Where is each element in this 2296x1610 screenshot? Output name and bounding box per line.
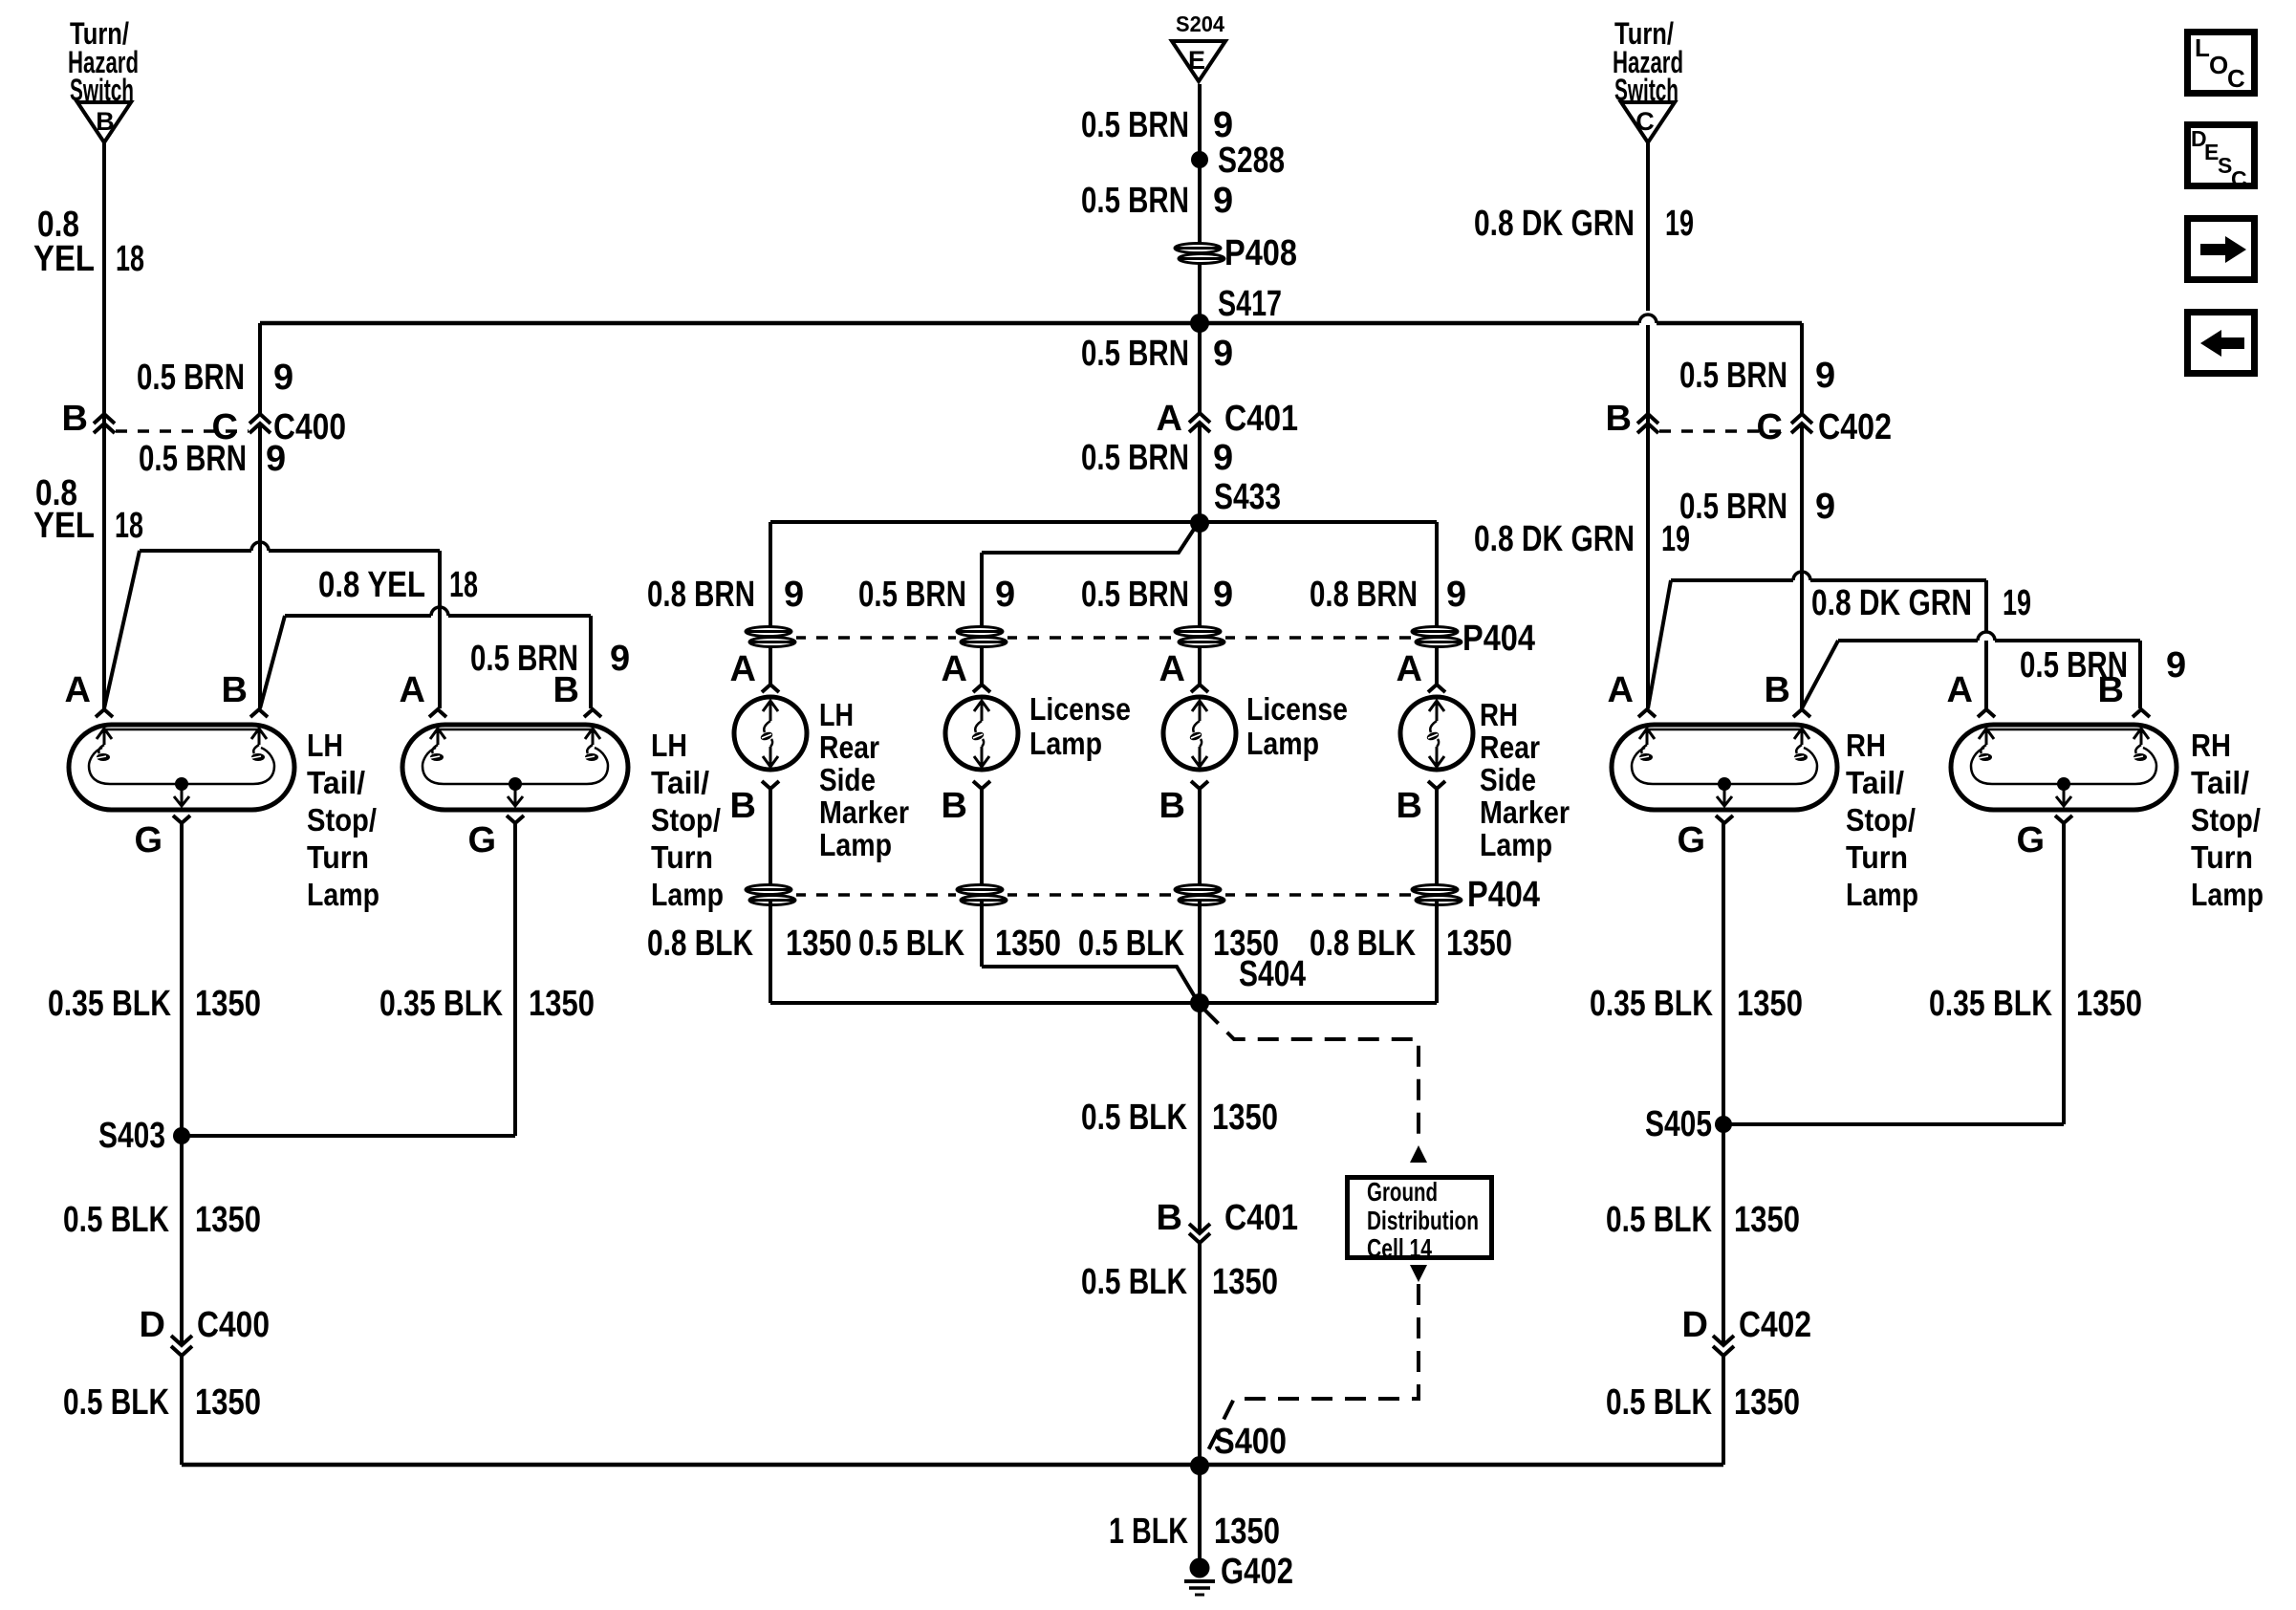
svg-text:0.8 BRN: 0.8 BRN (647, 575, 755, 615)
svg-text:9: 9 (1213, 181, 1233, 221)
svg-text:18: 18 (116, 239, 144, 279)
svg-text:B: B (1606, 399, 1632, 439)
svg-text:9: 9 (1446, 575, 1466, 615)
svg-text:9: 9 (273, 358, 293, 398)
splice S403 (173, 1127, 190, 1144)
svg-text:0.5 BRN: 0.5 BRN (1679, 356, 1787, 396)
lamp RH rear side marker bulb (1428, 685, 1445, 692)
svg-text:Lamp: Lamp (1029, 726, 1102, 761)
splice S288 (1191, 151, 1208, 168)
svg-text:S405: S405 (1645, 1104, 1712, 1144)
wire drop license1 A (980, 553, 984, 685)
wire YEL diagonal to LH lamp1 A (104, 551, 140, 708)
svg-text:Distribution: Distribution (1367, 1206, 1479, 1235)
svg-text:RH: RH (1480, 697, 1518, 732)
wire 0.5 BLK S403 to C400 D (180, 1136, 184, 1345)
svg-text:Turn: Turn (2191, 839, 2253, 875)
svg-text:0.5 BRN: 0.5 BRN (1081, 334, 1189, 374)
wire 0.35 BLK lamp1 G to S403 (180, 823, 184, 1136)
connector P404 grommet top license2 (1174, 627, 1225, 647)
svg-text:0.5 BLK: 0.5 BLK (858, 924, 964, 964)
svg-text:0.5 BRN: 0.5 BRN (1081, 575, 1189, 615)
svg-text:9: 9 (2166, 645, 2186, 685)
svg-text:1350: 1350 (1446, 924, 1512, 964)
wire 0.8 DK GRN branch line (1671, 578, 1793, 582)
svg-text:B: B (942, 786, 967, 826)
connector triangle C (Turn/Hazard Switch) (1621, 102, 1675, 142)
svg-text:License: License (1029, 691, 1131, 727)
svg-text:B: B (730, 786, 756, 826)
svg-text:1350: 1350 (786, 924, 852, 964)
wire BRN branch down to LH lamp2 B (589, 616, 593, 708)
svg-text:LH: LH (651, 728, 687, 763)
wire hop BRN branch over YEL drop (431, 607, 448, 616)
wire LH marker B to black bus (769, 900, 772, 1003)
wire RH marker B down (1435, 789, 1439, 890)
legend box LOC (2188, 33, 2255, 94)
wire P408 to S417 (1198, 264, 1202, 323)
svg-text:License: License (1246, 691, 1348, 727)
wire 0.35 BLK RH lamp2 G down (2062, 823, 2066, 1124)
svg-text:Lamp: Lamp (651, 877, 724, 912)
svg-text:9: 9 (1213, 575, 1233, 615)
svg-text:E: E (1188, 46, 1205, 75)
connector C400 pin C chevrons (249, 414, 271, 424)
wire drop RH marker A (1435, 522, 1439, 685)
svg-text:Rear: Rear (819, 729, 879, 765)
svg-text:Tail/: Tail/ (2191, 765, 2249, 800)
svg-text:B: B (1159, 786, 1185, 826)
wire S405 horizontal (1723, 1122, 2064, 1126)
connector C402 pin C chevrons (1791, 414, 1812, 424)
svg-text:9: 9 (1213, 334, 1233, 374)
connector triangle E (S204) (1172, 41, 1225, 81)
svg-text:P408: P408 (1224, 233, 1297, 273)
splice S400 (1190, 1456, 1209, 1475)
svg-text:B: B (1157, 1198, 1182, 1238)
svg-text:A: A (1608, 670, 1634, 710)
lamp license lamp 2 bulb (1191, 685, 1208, 692)
svg-text:B: B (96, 107, 115, 136)
svg-text:Turn: Turn (651, 839, 713, 875)
svg-text:B: B (1397, 786, 1422, 826)
svg-text:0.5 BLK: 0.5 BLK (63, 1382, 169, 1423)
svg-text:9: 9 (1213, 438, 1233, 478)
svg-text:0.5 BRN: 0.5 BRN (139, 439, 247, 479)
wire 0.5 BRN 9 from S417 to C400 (258, 323, 262, 414)
svg-text:G402: G402 (1221, 1552, 1293, 1592)
svg-text:S204: S204 (1176, 11, 1224, 36)
svg-text:A: A (1397, 649, 1422, 689)
svg-text:9: 9 (610, 639, 630, 679)
connector C402 pin B chevrons (1637, 414, 1658, 424)
wire YEL drop continue to lamp2 A (438, 616, 442, 708)
svg-text:Side: Side (819, 762, 876, 797)
dashed path S404 to Ground Distribution (1203, 1009, 1419, 1143)
wire 0.5 BRN branch line (right) (1838, 639, 1978, 642)
connector C400 pin D chevrons (171, 1336, 192, 1345)
svg-text:S433: S433 (1214, 477, 1281, 517)
svg-text:0.5 BLK: 0.5 BLK (1081, 1098, 1187, 1138)
svg-text:C400: C400 (197, 1305, 270, 1345)
connector P404 grommet bottom RH marker (1411, 885, 1462, 905)
svg-text:G: G (2016, 820, 2045, 860)
svg-text:18: 18 (449, 565, 478, 605)
svg-text:G: G (467, 820, 496, 860)
legend box next-page arrow (2188, 219, 2255, 280)
svg-text:9: 9 (1815, 487, 1835, 527)
legend icon right arrow (2200, 236, 2246, 263)
connector C402 pin D chevrons (1713, 1336, 1734, 1345)
svg-text:C: C (2231, 166, 2247, 191)
wire drop license2 A (1198, 523, 1202, 685)
svg-text:0.5 BRN: 0.5 BRN (858, 575, 966, 615)
svg-text:A: A (1159, 649, 1185, 689)
svg-text:LH: LH (819, 697, 854, 732)
wire 0.5 BLK S405 to C402 D (1722, 1124, 1725, 1345)
arrow down from Ground Distribution (1410, 1265, 1427, 1282)
svg-text:Marker: Marker (819, 794, 909, 830)
svg-text:B: B (62, 399, 88, 439)
ground G402 symbol (1190, 1558, 1210, 1578)
svg-text:19: 19 (2003, 583, 2031, 623)
svg-text:1350: 1350 (1212, 1262, 1278, 1302)
svg-text:A: A (942, 649, 967, 689)
wire hop DK GRN branch over C402 wire (1793, 572, 1810, 580)
wire 0.5 BLK C401 to S400 (1198, 1243, 1202, 1465)
wire 0.5 BRN 9 from C402 to lamp (1800, 424, 1804, 708)
svg-text:Lamp: Lamp (1246, 726, 1319, 761)
wire 0.5 BRN 9 from S417 to C402 (1800, 323, 1804, 414)
svg-text:Cell 14: Cell 14 (1367, 1233, 1432, 1263)
splice S433 (1190, 513, 1209, 533)
svg-text:B: B (222, 670, 248, 710)
svg-text:0.35 BLK: 0.35 BLK (48, 984, 171, 1024)
svg-text:Tail/: Tail/ (651, 765, 709, 800)
wire S433 branch to license lamp 1 (982, 525, 1197, 553)
connector P404 dashed line (top) (794, 636, 958, 640)
svg-text:YEL: YEL (33, 239, 95, 279)
svg-text:Ground: Ground (1367, 1177, 1438, 1207)
svg-text:LH: LH (307, 728, 343, 763)
wire 0.5 BLK C400 to S400 (180, 1356, 184, 1465)
svg-text:0.5 BRN: 0.5 BRN (1081, 105, 1189, 145)
wire 0.35 BLK lamp2 G down (513, 823, 517, 1136)
svg-text:1350: 1350 (195, 1200, 261, 1240)
wire 0.8 DK GRN from switch C (above S417) (1646, 142, 1650, 311)
wire license2 B to S404 (1198, 900, 1202, 1003)
svg-text:C: C (1635, 107, 1655, 136)
svg-text:0.8 BLK: 0.8 BLK (647, 924, 753, 964)
wire GRN drop continue to RH lamp2 A (1984, 641, 1988, 708)
svg-text:9: 9 (266, 439, 286, 479)
splice S417 (1190, 314, 1209, 333)
arrow up to Ground Distribution (1410, 1145, 1427, 1163)
svg-text:1350: 1350 (1734, 1200, 1800, 1240)
connector C400 dashed line (116, 429, 249, 433)
svg-text:0.8 DK GRN: 0.8 DK GRN (1811, 583, 1972, 623)
box Ground Distribution Cell 14 (1348, 1178, 1492, 1258)
svg-text:0.8 BRN: 0.8 BRN (1310, 575, 1418, 615)
connector P408 grommet (1174, 244, 1225, 264)
svg-text:Turn: Turn (307, 839, 369, 875)
connector C400 pin B chevrons (94, 414, 115, 424)
svg-text:A: A (1157, 399, 1182, 439)
wire LH marker B down (769, 789, 772, 890)
svg-text:S404: S404 (1239, 954, 1306, 994)
lamp LH rear side marker bulb (762, 685, 779, 692)
svg-text:P404: P404 (1467, 875, 1540, 915)
svg-text:B: B (2098, 670, 2124, 710)
svg-text:Stop/: Stop/ (1846, 802, 1916, 838)
wire hop at S417 over Turn/Hazard C wire (1639, 315, 1657, 323)
svg-text:Lamp: Lamp (1846, 877, 1918, 912)
svg-text:9: 9 (784, 575, 804, 615)
svg-text:0.8 YEL: 0.8 YEL (318, 565, 425, 605)
svg-text:Side: Side (1480, 762, 1536, 797)
wire DK GRN diagonal to RH lamp1 A (1648, 580, 1671, 708)
svg-text:19: 19 (1665, 204, 1694, 244)
svg-text:0.5 BLK: 0.5 BLK (1606, 1382, 1712, 1423)
legend box prev-page arrow (2188, 313, 2255, 374)
svg-text:Lamp: Lamp (819, 827, 892, 862)
svg-text:18: 18 (115, 506, 143, 546)
wire 0.5 BRN 9 S288 to P408 (1198, 160, 1202, 244)
svg-text:Rear: Rear (1480, 729, 1540, 765)
svg-text:0.5 BLK: 0.5 BLK (1606, 1200, 1712, 1240)
splice S405 (1715, 1116, 1732, 1133)
svg-text:L: L (2195, 33, 2210, 62)
svg-text:P404: P404 (1462, 619, 1535, 659)
svg-text:Turn: Turn (1846, 839, 1908, 875)
wire 0.5 BRN 9 S204 to S288 (1198, 84, 1202, 160)
svg-text:O: O (2209, 51, 2228, 79)
svg-text:Tail/: Tail/ (307, 765, 365, 800)
svg-text:Lamp: Lamp (307, 877, 379, 912)
svg-text:Lamp: Lamp (2191, 877, 2264, 912)
svg-text:C402: C402 (1739, 1305, 1811, 1345)
wire BRN diagonal to RH lamp1 B (1802, 641, 1838, 708)
wire S403 horizontal (182, 1134, 515, 1138)
svg-text:C401: C401 (1224, 399, 1298, 439)
legend icon left arrow (2200, 330, 2244, 357)
wire black bus bottom (770, 1001, 1437, 1005)
wire S417 horizontal bus (260, 321, 1639, 326)
wire 0.5 BLK S404 to C401 (1198, 1003, 1202, 1233)
svg-text:0.5 BRN: 0.5 BRN (1081, 438, 1189, 478)
wire 1 BLK S400 to G402 (1198, 1466, 1202, 1560)
svg-text:B: B (1765, 670, 1790, 710)
svg-text:Stop/: Stop/ (307, 802, 377, 838)
wire 0.35 BLK RH lamp1 G to S405 (1722, 823, 1725, 1124)
legend box DESC (2188, 125, 2255, 186)
svg-text:Marker: Marker (1480, 794, 1570, 830)
svg-text:1350: 1350 (195, 1382, 261, 1423)
connector P404 grommet bottom LH marker (745, 885, 796, 905)
svg-text:S288: S288 (1218, 141, 1285, 181)
dashed path Ground Distribution to S400 (1203, 1284, 1419, 1460)
svg-text:A: A (400, 670, 425, 710)
svg-text:C402: C402 (1818, 407, 1892, 447)
connector C401 pin A chevrons (1189, 413, 1210, 423)
connector P404 dashed line (bottom) (794, 893, 958, 897)
wire YEL branch down to LH lamp2 A (438, 551, 442, 616)
svg-text:G: G (1677, 820, 1705, 860)
connector C401 pin B chevrons (1189, 1224, 1210, 1233)
svg-text:0.5 BRN: 0.5 BRN (137, 358, 245, 398)
svg-text:D: D (1682, 1305, 1708, 1345)
svg-text:C401: C401 (1224, 1198, 1298, 1238)
connector triangle B (Turn/Hazard Switch) (77, 102, 131, 142)
lamp RH tail/stop/turn 2 (1978, 709, 1995, 717)
svg-text:C: C (1757, 407, 1783, 447)
wire license1 B down (980, 789, 984, 890)
wire drop LH marker A (769, 522, 772, 685)
svg-text:0.8 BLK: 0.8 BLK (1310, 924, 1416, 964)
lamp RH tail/stop/turn 1 (1638, 709, 1656, 717)
lamp license lamp 1 bulb (973, 685, 990, 692)
connector C402 dashed line (1659, 429, 1790, 433)
wire hop over S417 (Turn/Hazard C wire) (1646, 325, 1650, 708)
svg-text:Stop/: Stop/ (2191, 802, 2261, 838)
svg-text:0.35 BLK: 0.35 BLK (1590, 984, 1713, 1024)
svg-text:1350: 1350 (2076, 984, 2142, 1024)
wire 0.5 BRN branch line (285, 614, 431, 618)
svg-text:0.5 BLK: 0.5 BLK (63, 1200, 169, 1240)
connector P404 grommet bottom license1 (956, 885, 1007, 905)
svg-text:1350: 1350 (1212, 1098, 1278, 1138)
wire 0.8 YEL branch line (140, 549, 251, 553)
svg-text:9: 9 (995, 575, 1015, 615)
wire 0.5 BRN 9 S417 to C401 (1198, 323, 1202, 413)
wire license2 B down (1198, 789, 1202, 890)
wire S400 ground bus (182, 1463, 1723, 1468)
svg-text:9: 9 (1213, 105, 1233, 145)
svg-text:YEL: YEL (33, 506, 95, 546)
wire DK GRN branch down segment (1984, 580, 1988, 632)
svg-text:RH: RH (1846, 728, 1886, 763)
svg-text:A: A (1947, 670, 1973, 710)
wire license1 branch to S404 (982, 967, 1197, 1000)
wire 0.5 BRN 9 from C400 to lamp (258, 424, 262, 708)
svg-text:1350: 1350 (995, 924, 1061, 964)
svg-text:A: A (730, 649, 756, 689)
wire brown bus top (S433) (770, 520, 1437, 524)
lamp LH tail/stop/turn 1 (96, 709, 113, 717)
splice S404 (1190, 993, 1209, 1012)
wire BRN diagonal to LH lamp1 B (260, 616, 285, 708)
svg-text:1350: 1350 (1214, 1512, 1280, 1552)
svg-text:0.8 DK GRN: 0.8 DK GRN (1474, 519, 1635, 559)
connector P404 grommet bottom license2 (1174, 885, 1225, 905)
svg-text:9: 9 (1815, 356, 1835, 396)
svg-text:D: D (140, 1305, 165, 1345)
wire hop right BRN branch over GRN drop (1978, 632, 1995, 641)
svg-text:1350: 1350 (1737, 984, 1803, 1024)
svg-text:A: A (65, 670, 91, 710)
wire license1 B to branch (980, 900, 984, 967)
svg-text:RH: RH (2191, 728, 2231, 763)
svg-text:G: G (134, 820, 162, 860)
svg-text:1350: 1350 (529, 984, 595, 1024)
wire hop YEL branch over C400 wire (251, 542, 269, 551)
svg-text:B: B (553, 670, 579, 710)
svg-text:0.35 BLK: 0.35 BLK (1929, 984, 2052, 1024)
lamp LH tail/stop/turn 2 (429, 709, 446, 717)
svg-text:Stop/: Stop/ (651, 802, 721, 838)
wire 0.8 YEL 18 from switch B (102, 142, 106, 708)
svg-text:1350: 1350 (1734, 1382, 1800, 1423)
connector P404 grommet top LH marker (745, 627, 796, 647)
svg-text:1 BLK: 1 BLK (1109, 1512, 1188, 1552)
svg-text:0.35 BLK: 0.35 BLK (379, 984, 503, 1024)
svg-text:0.5 BLK: 0.5 BLK (1078, 924, 1184, 964)
svg-text:S417: S417 (1218, 284, 1282, 324)
svg-text:S403: S403 (98, 1116, 165, 1156)
svg-text:0.5 BLK: 0.5 BLK (1081, 1262, 1187, 1302)
svg-text:0.8 DK GRN: 0.8 DK GRN (1474, 204, 1635, 244)
svg-text:C: C (2227, 64, 2245, 93)
svg-text:1350: 1350 (195, 984, 261, 1024)
connector P404 grommet top RH marker (1411, 627, 1462, 647)
svg-text:S400: S400 (1214, 1422, 1287, 1462)
wire BRN branch down to RH lamp2 B (2138, 641, 2142, 708)
svg-text:Tail/: Tail/ (1846, 765, 1904, 800)
svg-text:0.5 BRN: 0.5 BRN (1081, 181, 1189, 221)
wire 0.5 BLK C402 to S400 (1722, 1356, 1725, 1465)
connector P404 grommet top license1 (956, 627, 1007, 647)
svg-text:Lamp: Lamp (1480, 827, 1552, 862)
svg-text:0.5 BRN: 0.5 BRN (1679, 487, 1787, 527)
wire RH marker B to black bus (1435, 900, 1439, 1003)
wire 0.5 BRN 9 C401 to S433 (1198, 423, 1202, 523)
